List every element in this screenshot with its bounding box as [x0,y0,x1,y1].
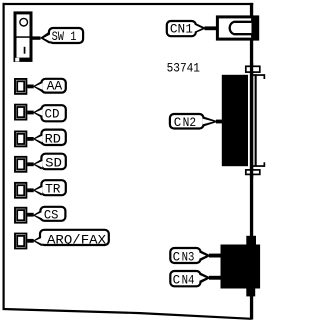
svg-text:RD: RD [45,132,61,146]
panel line over jackscrews [250,63,253,178]
svg-text:C: C [173,250,181,264]
arrow wedge [33,236,42,247]
svg-text:N4: N4 [182,273,195,287]
panel line (right edge) [250,3,253,320]
wire stub [209,254,222,258]
connector CN2 (DB-25 body) [222,75,248,166]
label box [41,180,65,195]
callout RD [27,130,66,147]
label box [41,130,65,145]
arrow wedge [40,31,50,43]
wire stub [33,36,41,39]
board frame bottom edge (slanted) [3,308,252,320]
CN3/4 bottom tab [246,289,255,297]
arrow wedge [33,81,42,92]
callout CD [27,105,66,121]
arrow wedge [33,210,42,221]
wire stub [27,137,34,141]
connector CN1 (power jack) [216,15,259,40]
LED CS [15,208,26,223]
switch O symbol [20,18,28,26]
svg-text:N3: N3 [182,250,195,264]
wire stub [27,162,34,166]
callout AA [27,79,66,94]
svg-text:CD: CD [45,107,60,121]
label box [40,207,65,221]
arrow wedge [201,273,212,284]
svg-text:SD: SD [45,157,62,171]
arrow wedge [33,134,42,145]
CN2 cutout bottom hook [264,162,266,167]
callout CN3 [170,248,221,264]
LED RD [15,131,26,146]
CN2 mating face line [255,74,257,166]
arrow wedge [33,185,42,196]
wire stub [216,120,223,124]
callout CN2 [170,114,223,130]
wire stub [27,111,34,115]
barrel [230,22,252,34]
CN2 cutout bottom tick [252,165,265,167]
CN2 cutout top tick [252,74,265,76]
svg-text:AA: AA [47,80,63,94]
arrow wedge [204,117,219,127]
LED CD [15,105,26,120]
svg-text:C: C [173,273,181,287]
board frame top edge [3,3,254,5]
svg-text:N2: N2 [183,116,197,130]
callout SD [27,154,66,171]
label box [41,79,65,93]
arrow wedge [33,107,42,118]
LED AA [15,79,26,94]
svg-text:CS: CS [44,209,59,223]
callout CN4 [170,271,221,287]
CN2 cutout top hook [264,74,266,79]
svg-text:CN1: CN1 [170,23,193,37]
svg-text:C: C [174,116,182,130]
callout CN1 [167,21,216,37]
arrow wedge [33,159,42,170]
svg-text:ARQ/FAX: ARQ/FAX [47,233,107,247]
switch I symbol [24,47,26,54]
CN2 bottom jackscrew [246,170,260,175]
callout SW1 [33,28,84,44]
label box [40,230,109,245]
label box [41,105,65,121]
svg-text:SW 1: SW 1 [52,30,77,44]
wire stub [205,26,217,30]
svg-text:TR: TR [45,183,61,197]
label box SW 1 [49,28,83,43]
connector CN3/CN4 (phone jacks body) [221,245,261,289]
wire stub [27,188,34,192]
wire stub [27,213,34,217]
switch SW1 [14,11,33,62]
board frame left edge [3,3,5,310]
callout CS [27,207,65,223]
callout ARQ/FAX [27,230,109,248]
LED SD [15,157,26,172]
switch divider [17,36,30,38]
CN2 top jackscrew [246,66,260,72]
wire stub [27,239,34,243]
callout TR [27,180,66,197]
label box [41,154,65,170]
arrow wedge [201,250,212,261]
svg-text:53741: 53741 [167,62,200,76]
switch knob notch [15,58,19,62]
LED ARQ/FAX [15,234,26,249]
wire stub [27,85,34,89]
CN3/4 top tab [246,236,256,245]
wire stub [209,276,222,280]
arrow wedge [196,23,207,33]
LED TR [15,183,26,198]
